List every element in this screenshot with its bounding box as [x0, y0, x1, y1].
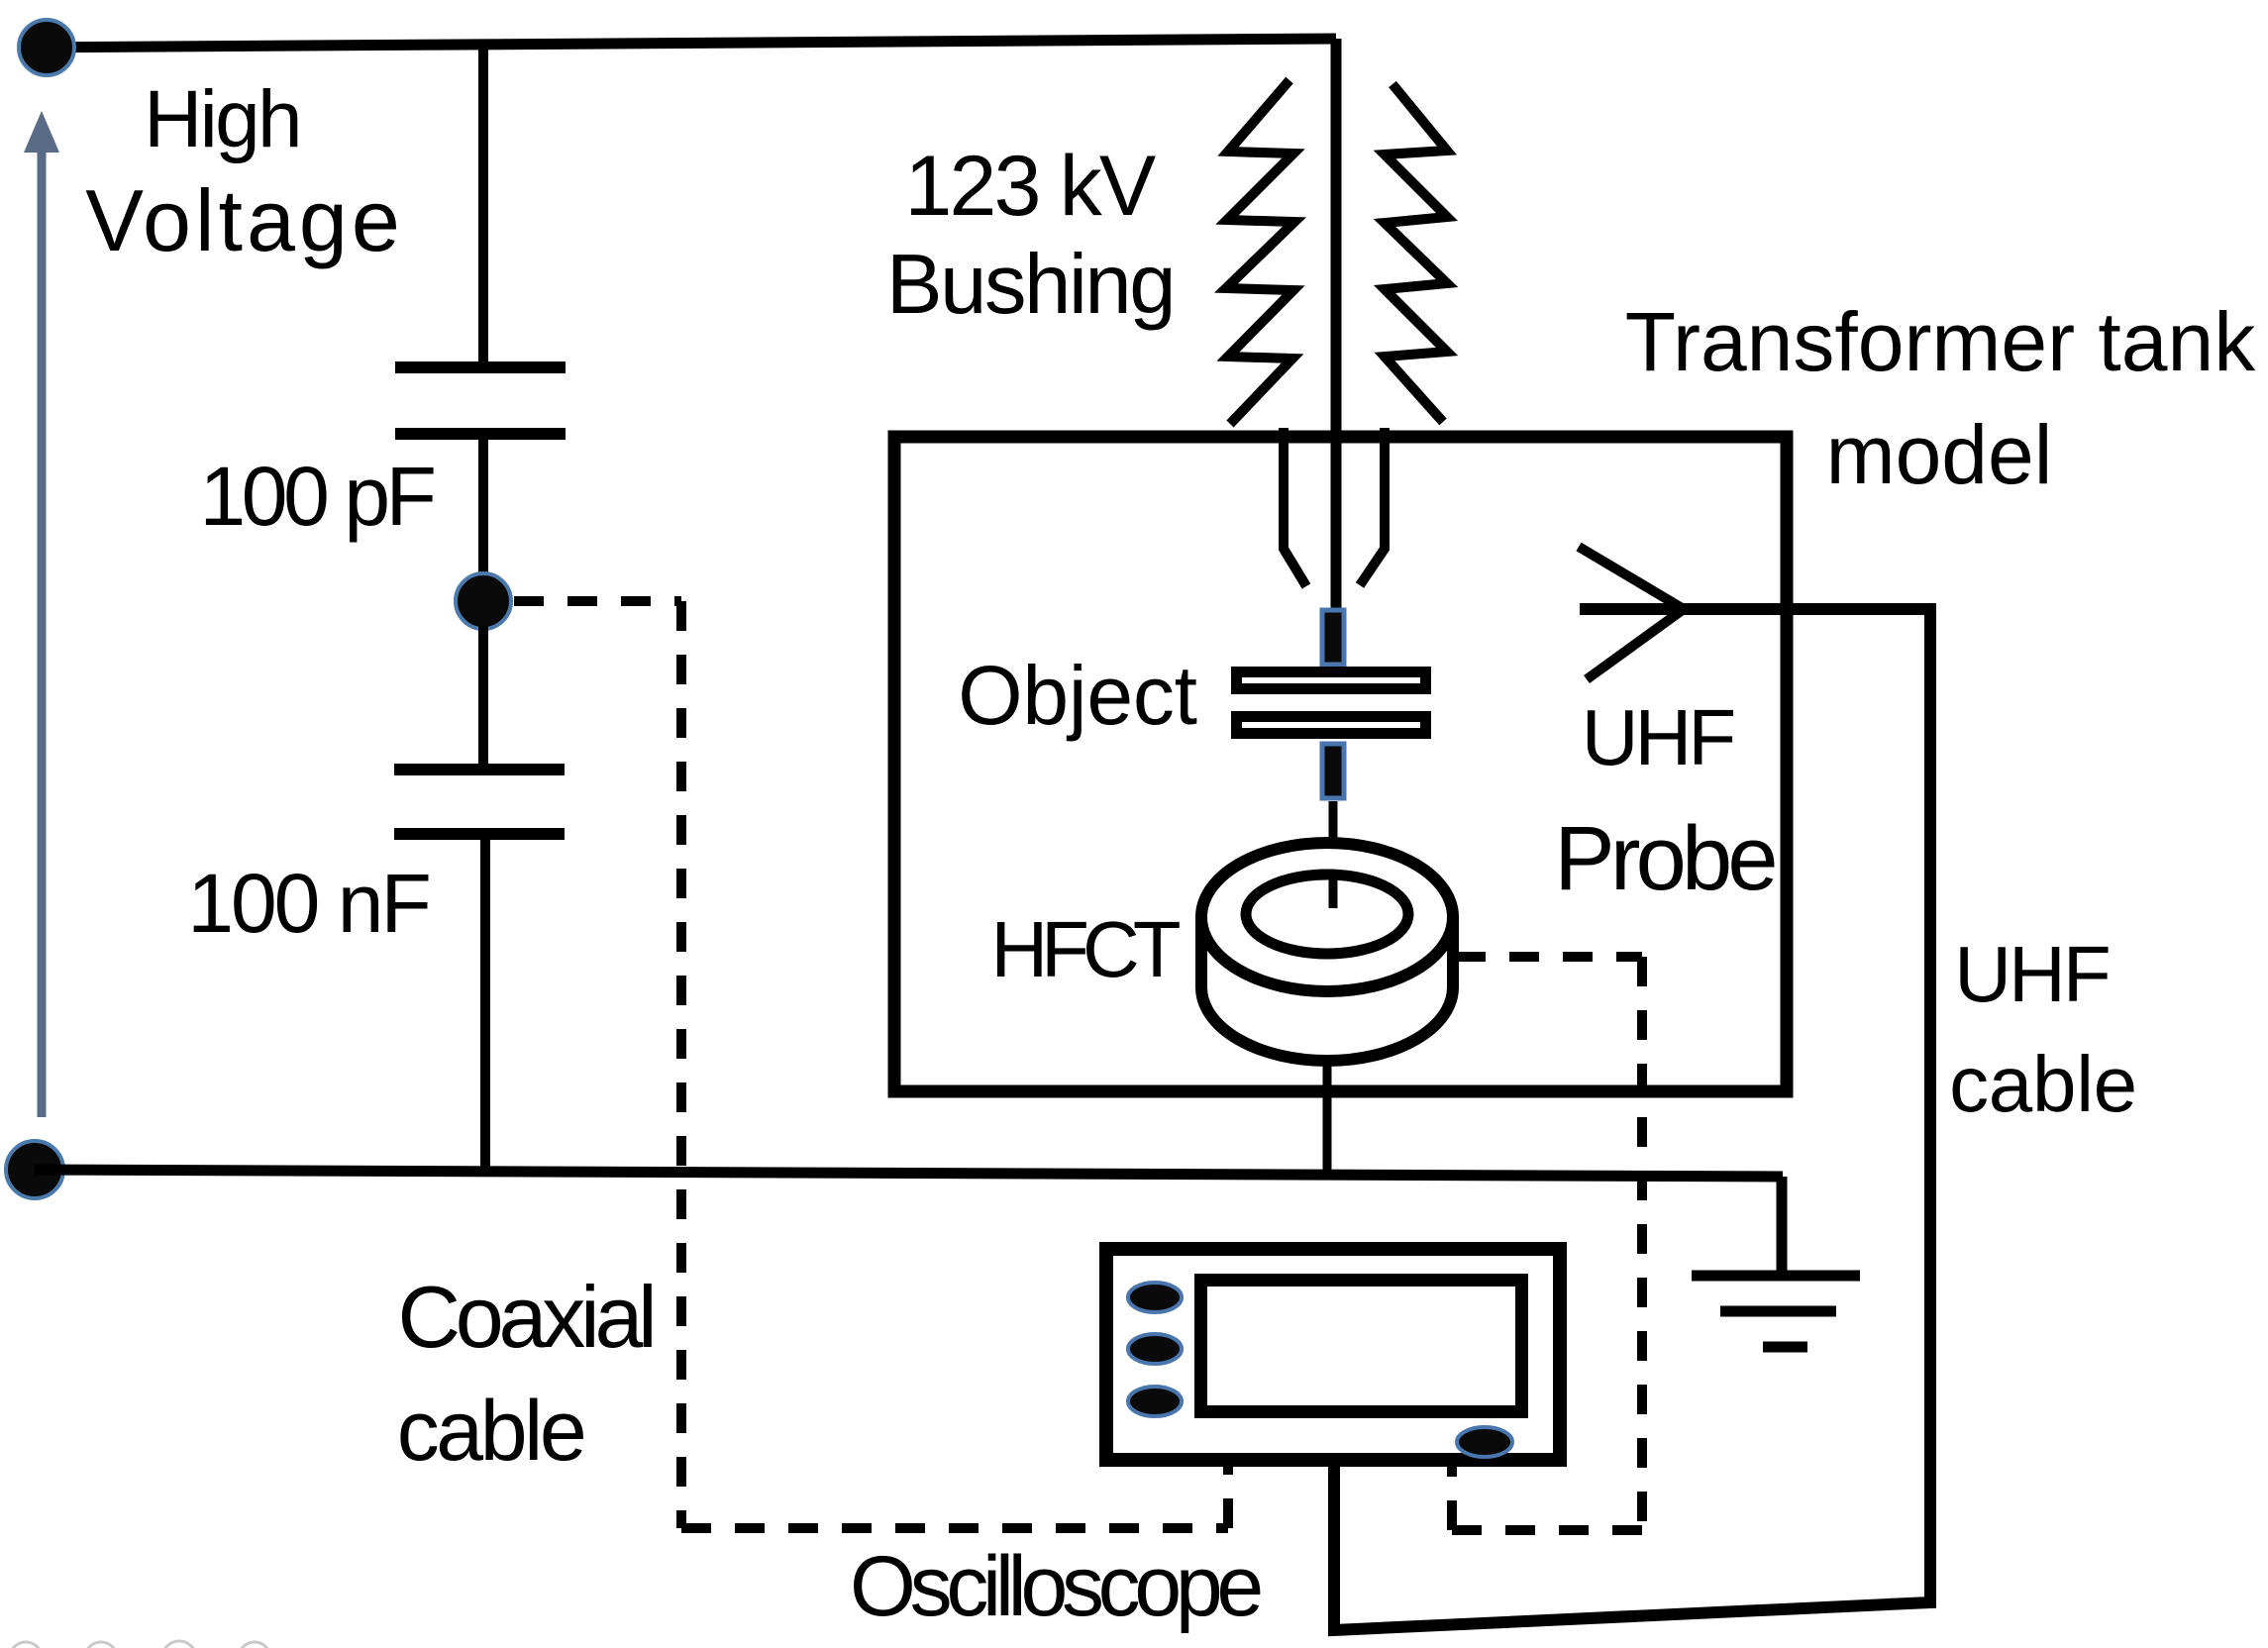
bushing left shed zigzag: [1226, 80, 1294, 424]
svg-text:Coaxial: Coaxial: [397, 1268, 652, 1366]
svg-text:Oscilloscope: Oscilloscope: [850, 1539, 1261, 1634]
svg-text:Transformer tank: Transformer tank: [1625, 295, 2256, 388]
wire UHF probe to cable, down right side, along bottom to oscilloscope: [1334, 609, 1930, 1630]
oscilloscope screen: [1201, 1281, 1522, 1412]
oscilloscope button 1: [1128, 1283, 1182, 1312]
High Voltage source arrow: [24, 111, 59, 1117]
capacitor C1 100 pF: [395, 44, 566, 576]
oscilloscope button 3: [1128, 1387, 1182, 1416]
bushing lower funnel left: [1284, 428, 1306, 586]
transformer tank enclosure: [894, 437, 1787, 1091]
ground symbol: [1692, 1276, 1860, 1347]
svg-text:123 kV: 123 kV: [905, 139, 1156, 234]
svg-text:High: High: [144, 74, 300, 164]
HFCT dashed run to oscilloscope: [1452, 957, 1642, 1530]
object bottom electrode bar: [1322, 744, 1344, 798]
wire into HFCT hole: [1329, 875, 1338, 908]
wire HFCT to ground bus: [1323, 1064, 1332, 1177]
svg-text:cable: cable: [397, 1384, 584, 1479]
svg-text:Voltage: Voltage: [85, 171, 404, 269]
wire object to HFCT: [1329, 801, 1338, 908]
wire ground bus: [35, 1170, 1783, 1177]
wire top bus from HV node to bushing drop: [20, 39, 1336, 48]
UHF probe arrow: [1579, 547, 1684, 679]
svg-text:Probe: Probe: [1554, 808, 1775, 909]
oscilloscope button 2: [1128, 1334, 1182, 1364]
HFCT toroid: [1201, 843, 1453, 1061]
object top electrode bar: [1322, 610, 1344, 665]
wire bushing vertical conductor: [1331, 39, 1342, 610]
svg-text:UHF: UHF: [1954, 930, 2109, 1018]
wire ground drop: [1777, 1177, 1788, 1276]
capacitor C2 100 nF: [394, 626, 565, 1175]
object top plate: [1237, 672, 1426, 689]
bushing lower funnel right: [1360, 428, 1385, 585]
svg-text:100 nF: 100 nF: [187, 857, 429, 950]
svg-text:HFCT: HFCT: [990, 905, 1180, 993]
node B (measuring tap junction): [456, 573, 511, 629]
node A (top-left HV node): [19, 20, 74, 75]
bushing right shed zigzag: [1385, 84, 1447, 422]
svg-text:100 pF: 100 pF: [199, 450, 433, 543]
svg-text:cable: cable: [1949, 1040, 2137, 1128]
faint page artifacts bottom-left: [10, 1641, 270, 1648]
oscilloscope knob bottom-right: [1457, 1427, 1512, 1457]
coaxial cable dashed run: node B to oscilloscope: [514, 601, 1228, 1528]
svg-text:model: model: [1826, 408, 2053, 501]
svg-text:UHF: UHF: [1582, 693, 1734, 781]
node C (bottom-left ground node): [6, 1141, 63, 1198]
svg-text:Object: Object: [958, 649, 1197, 742]
svg-text:Bushing: Bushing: [886, 238, 1174, 332]
object bottom plate: [1237, 717, 1426, 734]
oscilloscope body: [1106, 1249, 1560, 1460]
